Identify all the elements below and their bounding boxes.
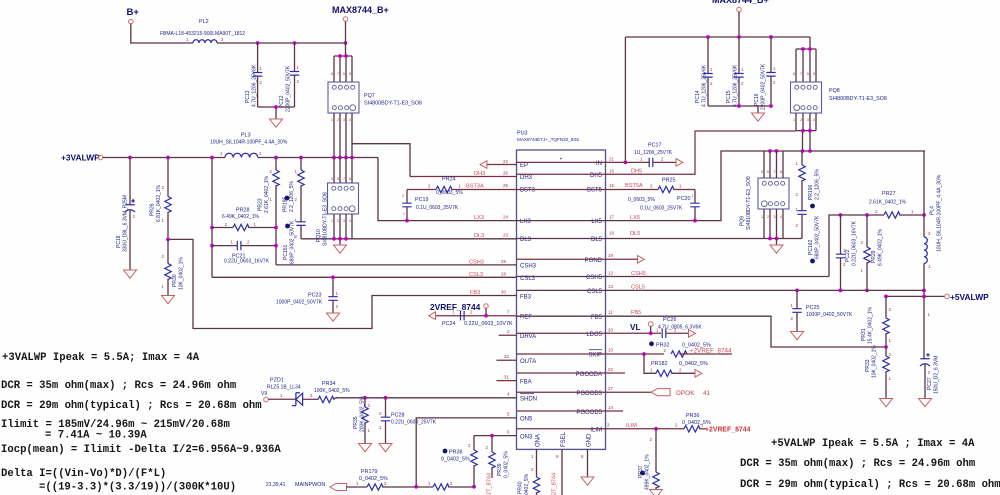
svg-text:18: 18 (609, 231, 614, 236)
wire PQ10 drain pins from rail (334, 158, 352, 184)
svg-text:680P_0402_50V7K: 680P_0402_50V7K (290, 220, 296, 264)
svg-text:+5VALWP Ipeak = 5.5A ; Imax =: +5VALWP Ipeak = 5.5A ; Imax = 4A (771, 438, 975, 450)
svg-text:MAX8744ETJ+_TQFN32_5X5: MAX8744ETJ+_TQFN32_5X5 (517, 137, 579, 142)
svg-text:GND: GND (587, 433, 593, 447)
svg-text:6.49K_0402_1%: 6.49K_0402_1% (878, 228, 884, 266)
resistor PR35 (353, 396, 371, 444)
svg-text:+2VREF_8744: +2VREF_8744 (690, 348, 732, 355)
ground (PR37) (650, 490, 663, 495)
wire DL5 net (517, 231, 803, 239)
wire IN pin / node (517, 157, 628, 165)
svg-text:LX3: LX3 (520, 219, 531, 225)
svg-text:1: 1 (911, 209, 914, 214)
svg-text:Delta I=((Vin-Vo)*D)/(F*L): Delta I=((Vin-Vo)*D)/(F*L) (1, 468, 166, 480)
svg-text:1: 1 (761, 215, 763, 219)
svg-text:6.49K_0402_1%: 6.49K_0402_1% (222, 214, 260, 220)
svg-text:2: 2 (402, 194, 404, 198)
svg-text:2: 2 (507, 329, 510, 334)
wire CSH5 net (517, 215, 841, 277)
svg-text:PR25: PR25 (662, 178, 676, 184)
wire cap common + ground (258, 107, 295, 119)
svg-text:1: 1 (162, 218, 165, 223)
capacitor PC17 (625, 143, 675, 168)
svg-text:PR34: PR34 (322, 381, 336, 387)
port +5VALWP (884, 290, 989, 302)
svg-text:2: 2 (875, 209, 878, 214)
port MAX8744_B+ (top right) (712, 0, 769, 12)
svg-text:1: 1 (741, 67, 744, 72)
svg-text:PC19: PC19 (415, 197, 429, 203)
note +5VALWP block (740, 438, 1000, 491)
svg-text:4.7U_1206_25V6K: 4.7U_1206_25V6K (733, 64, 739, 107)
pin 22 EP stub + off-sheet arrow (480, 159, 516, 168)
svg-text:PR33: PR33 (865, 359, 871, 372)
svg-text:2: 2 (889, 352, 892, 357)
wire FSEL pin (552, 449, 563, 495)
svg-text:0_0402_5%: 0_0402_5% (441, 457, 470, 463)
ground (PC14/15/16) (752, 113, 765, 121)
port V9 (261, 391, 268, 402)
svg-text:1000P_0402_50V7K: 1000P_0402_50V7K (806, 312, 853, 318)
svg-text:PR31: PR31 (861, 328, 867, 341)
svg-text:PC16: PC16 (754, 93, 760, 106)
svg-text:2: 2 (664, 348, 667, 353)
svg-text:DCR = 29m ohm(typical) ; Rcs =: DCR = 29m ohm(typical) ; Rcs = 20.68m oh… (1, 400, 262, 412)
wire CSL3 drop (inductor input sense) (211, 158, 213, 278)
svg-text:2: 2 (800, 118, 802, 122)
svg-text:1: 1 (186, 37, 189, 42)
svg-text:DRVA: DRVA (520, 334, 536, 340)
svg-text:1000P_0402_50V7K: 1000P_0402_50V7K (276, 300, 323, 306)
svg-text:PC28: PC28 (391, 413, 405, 419)
resistor PR28 (212, 208, 276, 231)
svg-text:PQ8: PQ8 (829, 88, 840, 94)
transistor PQ7 (328, 82, 422, 113)
port B+ (127, 7, 140, 24)
svg-text:REF: REF (520, 315, 532, 321)
svg-text:1: 1 (297, 65, 300, 70)
note +3VALWP block (1, 352, 281, 494)
svg-text:2: 2 (679, 368, 682, 373)
svg-text:PC151: PC151 (283, 244, 289, 260)
ground (PR30) (162, 296, 175, 304)
resistor PR34 (314, 381, 365, 403)
svg-text:1: 1 (254, 222, 257, 227)
svg-text:PR38: PR38 (449, 450, 463, 456)
port MAX8744_B+ (332, 5, 389, 21)
svg-text:+3VALWP Ipeak = 5.5A; Imax = 4: +3VALWP Ipeak = 5.5A; Imax = 4A (2, 352, 200, 364)
svg-text:2: 2 (889, 307, 892, 312)
svg-text:2: 2 (225, 222, 228, 227)
svg-text:7: 7 (800, 72, 802, 76)
svg-text:5: 5 (349, 72, 351, 76)
svg-text:2.2_1206_5%: 2.2_1206_5% (815, 169, 821, 200)
svg-text:1U_1206_25V7K: 1U_1206_25V7K (634, 150, 673, 156)
port +3VALWP (61, 153, 103, 163)
svg-text:2.61K_0402_1%: 2.61K_0402_1% (264, 175, 270, 213)
zener PZD1 (267, 378, 318, 406)
svg-text:6: 6 (807, 72, 809, 76)
node junctions on B+ rail (256, 41, 260, 45)
svg-text:2T_8744: 2T_8744 (487, 473, 493, 495)
svg-text:2: 2 (297, 79, 300, 84)
svg-text:ILIM: ILIM (626, 423, 637, 429)
svg-text:12: 12 (608, 271, 613, 276)
svg-text:2: 2 (773, 80, 776, 85)
svg-text:2VREF_8744: 2VREF_8744 (430, 302, 481, 312)
svg-text:41: 41 (703, 390, 711, 397)
svg-text:DCR = 35m ohm(max) ; Rcs = 24.: DCR = 35m ohm(max) ; Rcs = 24.96m ohm (740, 458, 975, 470)
svg-text:19: 19 (608, 253, 613, 258)
svg-text:21,39,41: 21,39,41 (266, 482, 286, 488)
capacitor PC18 (polarized) (116, 158, 136, 271)
svg-text:CSH3: CSH3 (520, 264, 537, 270)
svg-text:0.22U_0603_25V7K: 0.22U_0603_25V7K (391, 420, 437, 426)
svg-text:SI4800BDY-T1-E3_SO8: SI4800BDY-T1-E3_SO8 (364, 101, 422, 107)
svg-text:FSEL: FSEL (561, 431, 567, 447)
svg-text:PR36: PR36 (686, 413, 700, 419)
svg-text:10K_0402_1%: 10K_0402_1% (872, 345, 878, 378)
svg-text:5: 5 (813, 72, 815, 76)
wire PQ7 drain bar (334, 56, 352, 82)
svg-text:ON5: ON5 (520, 417, 533, 423)
wire LX5 net (517, 149, 926, 222)
wire B+ to PL2 (131, 24, 193, 43)
node ILIM / resistor PR36 (517, 413, 751, 434)
resistor PR26 (150, 158, 172, 240)
svg-text:150U_D2_6.3VM: 150U_D2_6.3VM (934, 356, 940, 394)
svg-text:+2VREF_8744: +2VREF_8744 (705, 427, 751, 434)
svg-text:20: 20 (608, 328, 613, 333)
svg-text:2: 2 (486, 445, 489, 450)
svg-text:8: 8 (793, 72, 795, 76)
inductor PL3 (210, 133, 288, 158)
svg-text:6: 6 (337, 177, 339, 181)
resistor PR30 (162, 239, 185, 295)
resistor PR196 (796, 151, 821, 211)
svg-text:32: 32 (504, 354, 509, 359)
resistor PR195 (283, 158, 305, 222)
svg-text:3: 3 (807, 118, 809, 122)
svg-text:2: 2 (675, 423, 678, 428)
svg-text:2: 2 (710, 81, 713, 86)
node CSH3 sense taps (274, 226, 278, 230)
svg-text:1: 1 (379, 425, 382, 430)
svg-text:7: 7 (337, 72, 339, 76)
svg-text:1: 1 (162, 284, 165, 289)
svg-text:OUTA: OUTA (520, 359, 536, 365)
svg-text:2: 2 (337, 118, 339, 122)
svg-text:PR182: PR182 (651, 361, 667, 367)
svg-text:PR28: PR28 (236, 208, 250, 214)
svg-text:SI4800BDY-T1-E3_SO8: SI4800BDY-T1-E3_SO8 (829, 96, 887, 102)
pin 32 OUTA stub (497, 354, 517, 360)
svg-text:8: 8 (331, 72, 333, 76)
svg-text:2: 2 (531, 467, 534, 472)
svg-text:SI4810BDY-T1-E3_SO8: SI4810BDY-T1-E3_SO8 (746, 176, 752, 230)
svg-text:PR35: PR35 (353, 416, 359, 429)
ground (PC13/PC12) (270, 119, 283, 127)
svg-text:EP: EP (520, 163, 528, 169)
sheet connector MAINPWON (266, 482, 367, 491)
svg-text:3: 3 (310, 393, 313, 398)
svg-text:22: 22 (503, 159, 508, 164)
wire CSH3 net (276, 259, 517, 266)
wire PR26 bottom to feedback loop (166, 238, 170, 242)
svg-text:1: 1 (773, 66, 776, 71)
svg-text:PC27: PC27 (927, 377, 933, 390)
capacitor PC162 (796, 207, 821, 263)
svg-text:RLZ5.1B_LL34: RLZ5.1B_LL34 (267, 385, 301, 391)
pin 31 FBA stub (497, 375, 517, 381)
wire PQ8 drain bar (796, 37, 816, 82)
svg-text:24: 24 (503, 215, 508, 220)
svg-text:LX5: LX5 (591, 219, 602, 225)
wire MAX8744_B+ down and B+ bus to PQ8 (625, 12, 810, 163)
svg-text:15: 15 (609, 183, 614, 188)
svg-text:499K_0402_1%: 499K_0402_1% (645, 454, 651, 490)
svg-text:8: 8 (349, 177, 351, 181)
svg-text:ON3: ON3 (520, 435, 533, 441)
svg-text:1: 1 (640, 157, 643, 162)
capacitor PC15 (726, 37, 744, 107)
svg-text:2: 2 (796, 192, 799, 197)
svg-text:PR27: PR27 (882, 191, 896, 197)
svg-text:6: 6 (767, 170, 769, 174)
svg-text:4.7U_1206_25V6K: 4.7U_1206_25V6K (702, 64, 708, 107)
svg-text:1: 1 (796, 161, 799, 166)
svg-text:31: 31 (504, 375, 509, 380)
capacitor PC22 (836, 215, 858, 290)
svg-text:1: 1 (679, 184, 682, 189)
svg-text:DCR = 29m ohm(typical) ; Rcs =: DCR = 29m ohm(typical) ; Rcs = 20.68m oh… (740, 479, 1000, 491)
svg-text:2: 2 (428, 184, 431, 189)
wire PQ8 source pins to bar and LX5 (796, 113, 816, 151)
svg-text:PC25: PC25 (806, 305, 820, 311)
svg-text:1: 1 (331, 219, 333, 223)
svg-text:25: 25 (503, 183, 508, 188)
svg-text:PC17: PC17 (648, 143, 662, 149)
svg-text:28: 28 (501, 272, 506, 277)
svg-text:PC162: PC162 (808, 239, 814, 255)
svg-text:15.4K_0402_1%: 15.4K_0402_1% (868, 306, 874, 344)
svg-text:+5VALWP: +5VALWP (950, 292, 989, 302)
svg-text:0.1U_0603_25V7K: 0.1U_0603_25V7K (416, 205, 459, 211)
svg-text:1: 1 (531, 454, 534, 459)
svg-text:BST3: BST3 (520, 188, 536, 194)
svg-text:1: 1 (331, 118, 333, 122)
svg-text:1: 1 (861, 268, 864, 273)
svg-text:PC12: PC12 (279, 95, 285, 108)
svg-text:13: 13 (608, 284, 613, 289)
capacitor PC25 (791, 290, 853, 331)
svg-text:PC15: PC15 (726, 90, 732, 103)
resistor (bottom, to PR38 node) (428, 481, 476, 490)
svg-text:16: 16 (609, 169, 614, 174)
ground (PQ10 source) (339, 239, 341, 245)
svg-text:0_0603_5%: 0_0603_5% (436, 190, 463, 196)
svg-text:MAINPWON: MAINPWON (295, 482, 325, 488)
svg-text:BST3A: BST3A (466, 184, 484, 190)
svg-text:3: 3 (607, 423, 610, 428)
wire +3VALWP rail (103, 157, 225, 159)
svg-text:2T_8744: 2T_8744 (552, 473, 558, 495)
svg-text:B+: B+ (127, 7, 140, 18)
svg-text:2: 2 (133, 214, 136, 219)
resistor PR23 (258, 158, 280, 265)
ground (PC27) (919, 399, 932, 407)
svg-text:2: 2 (796, 223, 799, 228)
ground (PC25) (791, 332, 804, 340)
svg-text:7: 7 (774, 170, 776, 174)
svg-text:3: 3 (343, 219, 345, 223)
resistor PR179 (356, 469, 433, 490)
resistor PR27 (839, 191, 926, 218)
wire PQ9 source pins to DL5 line (764, 209, 783, 239)
svg-text:9: 9 (556, 454, 559, 459)
svg-text:1: 1 (928, 264, 931, 269)
svg-text:PR30: PR30 (172, 274, 178, 287)
svg-text:3: 3 (343, 118, 345, 122)
capacitor PC12 (279, 43, 300, 112)
svg-text:PR26: PR26 (150, 203, 156, 216)
svg-text:4.7U_1206_25V6K: 4.7U_1206_25V6K (252, 64, 258, 107)
wire caps common + ground (708, 106, 771, 113)
svg-text:6: 6 (343, 72, 345, 76)
capacitor PC19 (402, 190, 459, 221)
svg-text:5: 5 (761, 170, 763, 174)
wire FB3 net + feedback loop (168, 239, 517, 328)
wire CSL3 net (212, 272, 517, 279)
svg-text:21: 21 (609, 157, 614, 162)
svg-text:2200P_0402_50V7K: 2200P_0402_50V7K (286, 65, 292, 112)
svg-text:SHDN: SHDN (520, 397, 537, 403)
svg-text:2: 2 (767, 215, 769, 219)
svg-text:4: 4 (780, 215, 782, 219)
svg-text:1: 1 (280, 393, 283, 398)
svg-text:2: 2 (247, 240, 250, 245)
svg-text:2: 2 (270, 169, 273, 174)
svg-text:2: 2 (861, 240, 864, 245)
svg-text:2: 2 (661, 157, 664, 162)
svg-text:DCR = 35m ohm(max) ; Rcs = 24.: DCR = 35m ohm(max) ; Rcs = 24.96m ohm (1, 380, 236, 392)
node SKIP / resistor PR32 (517, 341, 733, 357)
svg-text:1: 1 (295, 169, 298, 174)
pin 2 DRVA stub (499, 329, 517, 335)
svg-text:FB3: FB3 (520, 295, 532, 301)
svg-text:23: 23 (503, 233, 508, 238)
svg-text:5: 5 (507, 412, 510, 417)
svg-text:100K_0402_5%: 100K_0402_5% (314, 388, 350, 394)
pin 22 PGOODA stub (517, 367, 626, 373)
svg-text:PR179: PR179 (361, 469, 377, 475)
wire PQ7 source pins down to +3VALWP rail (334, 113, 352, 158)
svg-text:4: 4 (349, 118, 351, 122)
wire ONA pin + resistor PR40 (518, 449, 540, 495)
svg-text:PU3: PU3 (517, 131, 528, 137)
svg-text:0.22U_0603_10V7K: 0.22U_0603_10V7K (464, 321, 513, 327)
svg-text:DL3: DL3 (474, 233, 484, 239)
resistor PR29 (861, 215, 884, 292)
svg-text:PC26: PC26 (663, 317, 677, 323)
svg-text:1: 1 (459, 184, 462, 189)
off-sheet arrow (PC17) (676, 159, 683, 167)
node BST5A / resistor PR25 (517, 178, 696, 204)
svg-text:CSL5: CSL5 (631, 285, 645, 291)
svg-text:1: 1 (260, 66, 263, 71)
svg-text:2: 2 (260, 80, 263, 85)
svg-text:1: 1 (403, 212, 405, 216)
capacitor PC28 (379, 398, 437, 444)
svg-text:2: 2 (928, 231, 931, 236)
capacitor PC27 (polarized) (920, 296, 940, 398)
wire DH3 net (410, 171, 517, 178)
svg-text:10: 10 (608, 348, 613, 353)
svg-text:DPOK: DPOK (676, 390, 695, 397)
svg-text:+3VALWP: +3VALWP (61, 153, 100, 163)
svg-text:DH3: DH3 (520, 175, 533, 181)
svg-text:7: 7 (507, 310, 510, 315)
pin 14 PGOOD5 stub (517, 405, 624, 411)
wire GND pin + ground (581, 449, 594, 485)
transistor PQ9 (740, 176, 790, 230)
resistor PR37 (638, 429, 659, 490)
svg-text:8: 8 (780, 170, 782, 174)
svg-text:1: 1 (220, 151, 223, 156)
resistor PR31 (861, 296, 892, 347)
svg-text:330U_D8L_6.3VM_P25M: 330U_D8L_6.3VM_P25M (123, 195, 129, 252)
capacitor PC23 (276, 275, 339, 313)
svg-text:2: 2 (928, 370, 931, 375)
ground (PR35) (359, 444, 372, 452)
svg-text:7: 7 (343, 177, 345, 181)
svg-text:0.1U_0603_25V7K: 0.1U_0603_25V7K (640, 206, 683, 212)
svg-text:PL4: PL4 (930, 206, 936, 215)
svg-text:PZD1: PZD1 (270, 378, 284, 384)
svg-text:4: 4 (349, 219, 351, 223)
svg-text:2: 2 (221, 37, 224, 42)
wire DL3 net (301, 233, 517, 240)
resistor PR182 + arrow (644, 354, 708, 377)
svg-text:PQ7: PQ7 (364, 93, 375, 99)
capacitor PC14 (695, 37, 713, 107)
svg-text:PL2: PL2 (199, 19, 209, 25)
svg-text:8: 8 (581, 454, 584, 459)
wire PQ9 drain pins from LX5 (764, 151, 783, 178)
svg-text:BST5A: BST5A (625, 183, 643, 189)
wire ON3 net (474, 430, 517, 438)
svg-text:10UH_SIL104R-100PF_4.4A_30%: 10UH_SIL104R-100PF_4.4A_30% (210, 140, 288, 146)
capacitor PC13 (245, 43, 263, 107)
svg-text:2: 2 (379, 411, 382, 416)
node VL / LDO5 pin / cap PC26 (517, 317, 703, 338)
svg-text:2: 2 (368, 403, 371, 408)
svg-text:22: 22 (608, 367, 613, 372)
wire LX3 net (378, 158, 517, 223)
svg-text:VL: VL (630, 323, 640, 332)
svg-text:2: 2 (337, 219, 339, 223)
svg-text:PR40: PR40 (518, 481, 524, 494)
svg-text:0402_5%: 0402_5% (524, 473, 530, 495)
svg-text:Iocp(mean) = Ilimit -Delta I/2: Iocp(mean) = Ilimit -Delta I/2=6.956A~9.… (1, 444, 281, 456)
svg-text:= 7.41A ~ 10.39A: = 7.41A ~ 10.39A (45, 430, 147, 442)
svg-text:2: 2 (650, 437, 653, 442)
svg-text:PC13: PC13 (245, 90, 251, 103)
inductor PL4 (924, 151, 943, 290)
svg-text:2: 2 (295, 197, 298, 202)
node BST3A / resistor PR24 / cap PC19 (407, 177, 517, 197)
svg-text:26: 26 (503, 171, 508, 176)
